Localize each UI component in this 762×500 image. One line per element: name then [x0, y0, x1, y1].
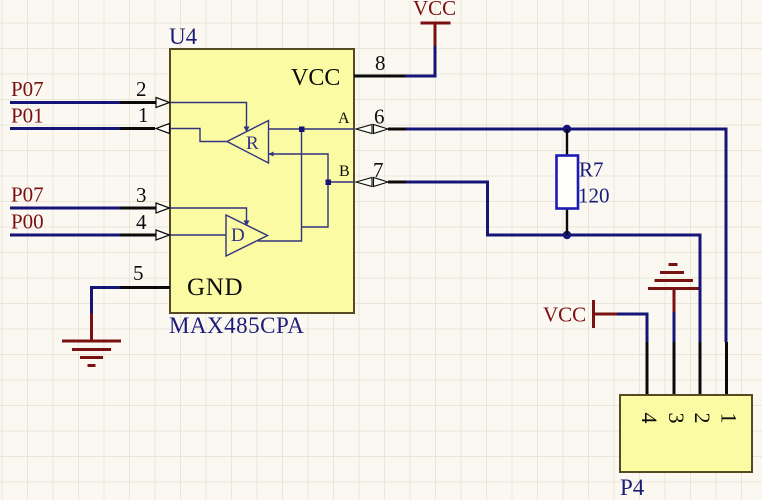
wire net B from pin7	[406, 182, 700, 342]
pin 8	[354, 51, 405, 76]
pin 6 A	[356, 105, 406, 134]
svg-text:3: 3	[664, 413, 689, 424]
pin 7 B	[356, 158, 406, 187]
resistor R7	[557, 129, 579, 235]
pin 1	[120, 103, 170, 134]
wire net P07 to pin2	[10, 101, 120, 104]
svg-text:GND: GND	[187, 274, 243, 301]
pin 4	[120, 210, 170, 240]
pin 5	[120, 261, 170, 288]
svg-text:3: 3	[136, 183, 147, 207]
svg-text:120: 120	[578, 184, 610, 208]
svg-text:8: 8	[375, 51, 386, 75]
internal wire pin4 to D input	[170, 234, 226, 236]
svg-text:VCC: VCC	[413, 0, 456, 20]
svg-text:P01: P01	[11, 104, 44, 128]
svg-text:4: 4	[637, 413, 662, 424]
svg-text:6: 6	[374, 105, 385, 129]
internal wire pin2 enable to R	[170, 103, 247, 131]
ground symbol (right, inverted earth)	[648, 265, 699, 313]
svg-text:D: D	[231, 225, 245, 246]
wire pin5 to ground	[92, 288, 121, 314]
svg-text:R: R	[246, 133, 259, 154]
internal wire pin3 enable to D	[170, 208, 247, 225]
IC U4 body	[170, 49, 354, 313]
internal wire A to D output vertical	[258, 129, 302, 241]
internal junction dot A	[299, 127, 305, 133]
wire net P01 to pin1	[10, 127, 120, 130]
wire VCC to P4 pin4	[617, 314, 647, 342]
wire net A from pin6 to P4 pin1	[406, 129, 726, 342]
pin 3	[120, 183, 170, 213]
svg-text:P00: P00	[11, 210, 44, 234]
wire ground to P4 pin3	[673, 312, 676, 342]
svg-text:5: 5	[133, 261, 144, 285]
svg-text:2: 2	[690, 413, 715, 424]
svg-text:P07: P07	[11, 183, 44, 207]
junction dot A / R7 top	[563, 125, 571, 133]
internal wire A line	[269, 128, 355, 130]
svg-text:MAX485CPA: MAX485CPA	[169, 313, 304, 338]
buffer R	[227, 121, 269, 164]
junction dot B / R7 bottom	[563, 231, 571, 239]
svg-text:B: B	[339, 163, 350, 180]
svg-text:P07: P07	[11, 77, 44, 101]
connector P4 body	[620, 395, 752, 472]
connector P4 pins	[647, 342, 727, 396]
svg-text:4: 4	[136, 210, 147, 234]
internal arrow at R lower input	[269, 152, 274, 157]
svg-text:P4: P4	[620, 475, 645, 500]
ground symbol (left earth)	[62, 314, 121, 366]
svg-text:7: 7	[373, 158, 384, 182]
power VCC symbol (top)	[421, 23, 451, 46]
svg-text:A: A	[338, 110, 350, 127]
svg-text:1: 1	[138, 103, 149, 127]
svg-text:R7: R7	[579, 158, 604, 182]
svg-text:VCC: VCC	[291, 65, 340, 91]
power VCC bar symbol (bottom)	[594, 300, 618, 328]
svg-text:1: 1	[716, 413, 741, 424]
wire pin8 to VCC	[405, 46, 435, 76]
wire net P07 to pin3	[10, 207, 120, 210]
internal arrow at D enable	[244, 221, 250, 227]
buffer D	[226, 215, 268, 256]
internal wire R lower input to B	[269, 154, 329, 227]
pin 2	[120, 77, 170, 108]
svg-text:2: 2	[136, 77, 147, 101]
internal arrow at R enable	[244, 127, 250, 133]
svg-text:U4: U4	[169, 24, 198, 49]
internal wire R output to pin1	[170, 129, 227, 142]
svg-text:VCC: VCC	[543, 303, 586, 327]
internal junction dot B	[326, 180, 332, 186]
internal wire B line	[328, 181, 354, 183]
wire net P00 to pin4	[10, 234, 120, 237]
